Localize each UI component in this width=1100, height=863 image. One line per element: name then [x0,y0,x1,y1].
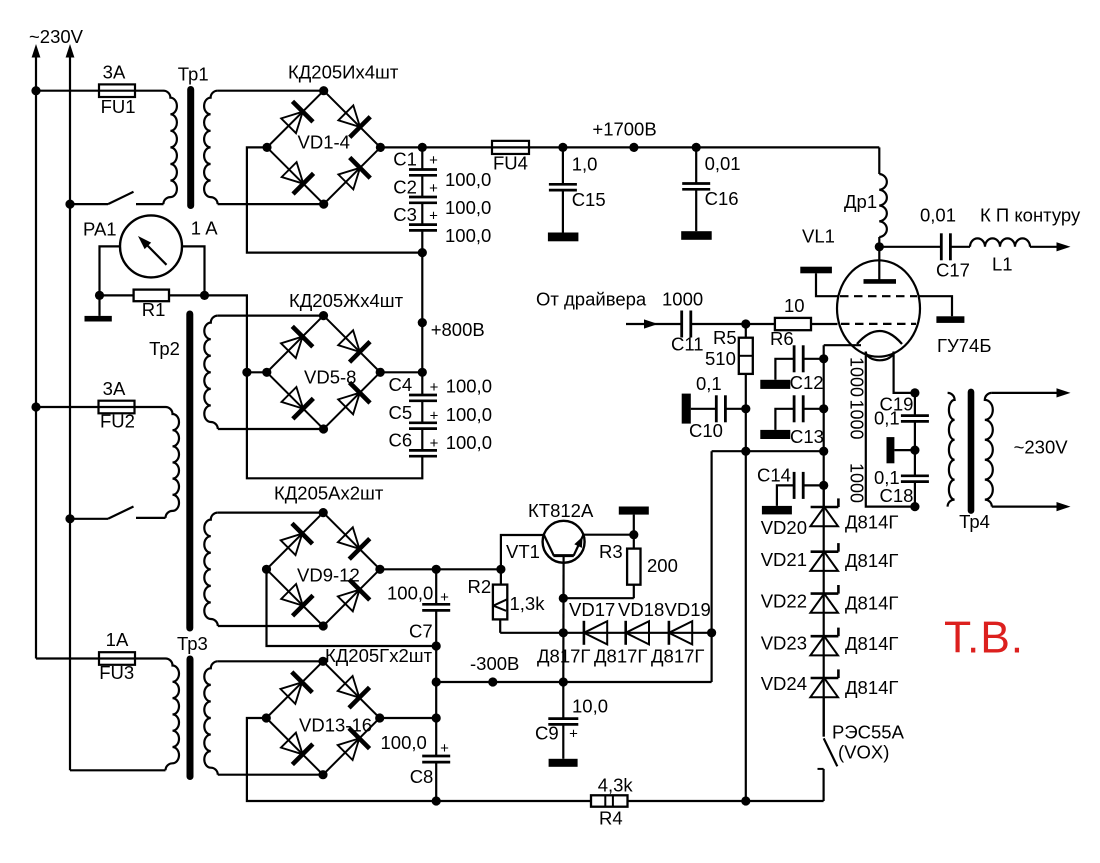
resistor R4 4,3k [591,795,628,806]
svg-text:R1: R1 [142,299,166,320]
svg-text:R4: R4 [599,808,623,829]
svg-text:100,0: 100,0 [445,169,491,190]
svg-text:10: 10 [784,295,805,316]
node anode / C17 [875,242,884,251]
svg-text:VT1: VT1 [506,541,540,562]
svg-text:Тр1: Тр1 [178,64,209,85]
resistor R5 510 [745,324,747,338]
svg-text:Д814Г: Д814Г [845,512,898,533]
transformer Tp4 mains winding [985,393,993,507]
svg-text:Тр4: Тр4 [959,511,990,532]
fuse FU1 3A [99,84,135,97]
svg-text:FU1: FU1 [101,96,136,117]
node R3 top [629,530,638,539]
svg-text:+: + [440,740,449,757]
node VD19 cathode [707,628,716,637]
svg-text:PA1: PA1 [83,219,117,240]
svg-text:C16: C16 [705,188,739,209]
svg-text:C10: C10 [689,420,723,441]
svg-text:3А: 3А [103,378,126,399]
svg-text:L1: L1 [992,254,1013,275]
svg-text:C5: C5 [389,402,413,423]
wire relay contact riser [822,769,824,801]
wire VD9-12 plus to C7 top [380,568,436,570]
diode VD19 Д817Г [668,621,671,645]
svg-text:VD9-12: VD9-12 [297,565,360,586]
svg-text:10,0: 10,0 [572,696,608,717]
svg-text:VD5-8: VD5-8 [304,367,356,388]
node C4 top [418,368,427,377]
transformer Tp2 lower secondary winding [204,513,218,626]
svg-text:C15: C15 [572,189,606,210]
wire R3 bottom to base line [563,597,634,599]
resistor R1 (meter shunt) [100,294,134,296]
svg-text:РЭС55А: РЭС55А [832,722,905,743]
capacitor C19 0,1 [914,393,916,416]
wire C4-C6 stack column [421,372,423,395]
svg-text:VD17: VD17 [569,599,615,620]
svg-text:100,0: 100,0 [446,376,492,397]
wire VT1 base column [562,556,564,682]
diode VD17 Д817Г [583,621,586,645]
node C14 tap [819,481,828,490]
node C19 top [910,388,919,397]
svg-text:VD23: VD23 [761,633,807,654]
node switch SA1 tap [65,200,74,209]
chassis bar above R3 [633,515,635,535]
svg-text:1000: 1000 [847,357,867,397]
wire minus bus to VD5-8 left corner [247,371,267,373]
svg-text:R3: R3 [599,541,623,562]
chassis bar g2 right [918,296,952,316]
node switch SA2 tap [65,514,74,523]
wire VD13-16 plus to C8 [380,717,437,719]
svg-text:3А: 3А [103,62,126,83]
chassis bar g2 left [816,273,839,296]
svg-text:1,0: 1,0 [572,154,598,175]
svg-text:К П контуру: К П контуру [980,205,1081,226]
svg-text:100,0: 100,0 [446,404,492,425]
node C7 bottom [432,641,441,650]
svg-text:Тр3: Тр3 [177,633,208,654]
svg-text:C17: C17 [936,260,970,281]
svg-text:C18: C18 [880,485,914,506]
svg-text:510: 510 [705,348,736,369]
wire +800V to VD5-8 plus [421,323,423,373]
svg-text:R2: R2 [468,576,492,597]
wire mains rail left (L) [35,52,37,659]
transformer Tp3 core [187,659,194,777]
svg-text:0,01: 0,01 [705,153,741,174]
node +1700V label dot [629,143,638,152]
svg-text:C6: C6 [389,430,413,451]
svg-text:VD22: VD22 [761,591,807,612]
svg-text:Д814Г: Д814Г [845,550,898,571]
svg-text:КД205Ах2шт: КД205Ах2шт [274,483,384,504]
capacitor C15 1,0 [562,147,564,184]
svg-text:1А: 1А [106,629,129,650]
wire bias link to cathode chain [712,450,824,452]
capacitor C12 1000 [803,358,824,360]
node minus bus / VD5-8 left [242,368,251,377]
transformer Tp3 secondary winding [204,661,218,774]
capacitor C14 1000 [803,484,824,486]
svg-text:-300В: -300В [470,653,519,674]
wire Tp2 lower secondary to bridge VD9-12 [218,511,323,513]
svg-text:Т.В.: Т.В. [944,614,1024,663]
zener VD20 Д814Г [811,506,839,509]
fuse FU3 1A [99,652,135,665]
bridge rectifier VD1-4 КД205И x4 [262,86,385,209]
svg-text:100,0: 100,0 [387,583,433,604]
svg-text:+: + [429,208,438,225]
wire heater lead right [894,352,915,393]
svg-text:100,0: 100,0 [445,197,491,218]
svg-text:~230V: ~230V [1014,437,1069,458]
zener VD21 Д814Г [811,550,839,553]
wire VD19 riser [710,451,712,682]
resistor R3 200 [633,535,635,549]
transformer Tp3 primary winding [166,659,180,771]
svg-text:R6: R6 [770,328,794,349]
node C1 top [418,143,427,152]
wire Tp3 secondary to bridge VD13-16 [218,660,323,662]
node R2 top / VT1 drive [496,565,505,574]
svg-text:C8: C8 [410,766,434,787]
wire R1 node to minus bus [205,295,423,478]
svg-text:200: 200 [647,555,678,576]
svg-text:Д814Г: Д814Г [845,593,898,614]
node C13 tap [819,404,828,413]
node R1 right [200,291,209,300]
svg-text:1000: 1000 [662,289,703,310]
node C16 tap [692,143,701,152]
node C15 tap [558,143,567,152]
wire Tp3 primary bottom return [70,769,166,771]
node R1 left [95,291,104,300]
wire Tp1 secondary to bridge VD1-4 [218,90,324,92]
svg-text:+: + [429,152,438,169]
wire bottom bias bus [436,800,591,802]
capacitor C3 100,0 [409,223,437,226]
wire VD1-4 plus to HV rail [380,146,492,148]
wire C8 link [435,682,437,718]
svg-text:Д817Г: Д817Г [537,646,590,667]
svg-text:VD13-16: VD13-16 [299,715,372,736]
node C10 / R5 bottom [741,404,750,413]
node C3 bottom [418,248,427,257]
svg-text:1000: 1000 [847,463,867,503]
choke Др1 [878,147,880,174]
wire R5/C10 node down the bias feed [745,409,747,801]
ground at C9 [549,759,578,767]
svg-text:1 A: 1 A [191,218,218,239]
svg-text:Тр2: Тр2 [149,338,180,359]
ground at C16 [681,231,712,240]
svg-text:R5: R5 [713,327,737,348]
svg-text:FU2: FU2 [100,411,135,432]
svg-text:+800В: +800В [431,319,485,340]
wire FU1 feed [36,90,99,92]
svg-text:VD21: VD21 [761,549,807,570]
node C7 top [432,565,441,574]
wire R2 bottom [499,619,501,632]
chassis bar heater midpoint [894,449,915,451]
svg-text:C14: C14 [757,465,791,486]
node bias link tap [819,447,828,456]
fuse FU2 3A [99,401,135,414]
node C9 tap [559,677,568,686]
wire VD1-4 minus loop [247,147,422,252]
capacitor C2 100,0 [409,196,437,199]
wire heater lead left [866,352,915,507]
meter PA1 1A [120,215,182,277]
tube cathode arc [857,331,902,344]
wire C11 to R6 [691,323,746,325]
node grid drive / R5 tap [741,319,750,328]
node FU2 tap [31,402,40,411]
capacitor C8 100,0 [435,718,437,756]
svg-text:КТ812А: КТ812А [528,500,594,521]
node FU1 tap [31,86,40,95]
tube control grid g1 (dashed) [841,323,916,325]
svg-text:VD18: VD18 [618,599,664,620]
node heater midpoint [910,446,919,455]
svg-text:1,3k: 1,3k [510,593,546,614]
svg-text:Др1: Др1 [844,191,877,212]
capacitor C4 100,0 [409,394,437,397]
node C12 tap [819,354,828,363]
svg-text:100,0: 100,0 [446,432,492,453]
node -300V label dot [488,677,497,686]
svg-text:+1700В: +1700В [592,119,656,140]
svg-text:+: + [429,180,438,197]
transformer Tp2 upper secondary winding [204,316,218,429]
svg-text:VD19: VD19 [665,599,711,620]
wire mains rail right (N) [69,52,71,770]
capacitor C13 1000 [803,408,824,410]
ground at C15 [548,233,579,242]
wire VT1 collector to R3 [583,534,634,536]
wire anode top cap [878,247,880,282]
wire PA1 left lead [100,246,121,295]
bridge rectifier VD9-12 КД205А x2 [262,508,385,631]
capacitor C17 0,01 [879,246,941,248]
wire -300V C7 rail to VT1 base divider [436,568,501,570]
transformer Tp2 core [186,314,193,628]
tube base press seal arc [866,352,894,361]
transformer Tp4 heater winding [948,393,955,507]
svg-text:КД205Жх4шт: КД205Жх4шт [289,290,404,311]
bridge rectifier VD13-16 КД205Г x2 [262,657,385,780]
wire zener chain [823,485,825,736]
wire Tp4 mains output bottom [992,506,1058,508]
svg-text:0,1: 0,1 [874,408,900,429]
capacitor C11 1000 [680,311,683,338]
wire C7 bottom to -300V rail [435,646,437,682]
svg-text:C1: C1 [393,149,417,170]
svg-text:100,0: 100,0 [381,732,427,753]
svg-text:C7: C7 [409,621,433,642]
tube anode plate bar [864,279,897,284]
svg-text:C4: C4 [389,374,413,395]
wire VT1 emitter lead [501,535,544,569]
diode VD18 Д817Г [624,621,627,645]
svg-text:ГУ74Б: ГУ74Б [937,335,992,356]
svg-text:(VOX): (VOX) [838,742,889,763]
capacitor C18 0,1 [914,450,916,476]
svg-text:0,1: 0,1 [696,373,722,394]
svg-text:VL1: VL1 [802,226,835,247]
svg-text:100,0: 100,0 [445,225,491,246]
node base line [559,594,568,603]
inductor L1 [970,238,1030,246]
wire FU2 feed [36,406,99,408]
svg-text:VD1-4: VD1-4 [298,132,350,153]
wire -300V rail [436,681,711,683]
svg-text:C13: C13 [790,426,824,447]
node bias crossover [741,447,750,456]
zener VD23 Д814Г [811,635,839,638]
svg-text:Д814Г: Д814Г [845,677,898,698]
svg-text:+: + [569,726,578,743]
node -300V column [432,677,441,686]
svg-text:4,3k: 4,3k [598,775,634,796]
capacitor C10 0,1 [691,408,717,410]
svg-text:~230V: ~230V [29,26,84,47]
transformer Tp1 primary winding [163,91,177,204]
wire cathode to bias chain [824,344,861,346]
svg-text:От драйвера: От драйвера [536,289,647,310]
capacitor C16 0,01 [695,147,697,183]
transformer Tp1 core [187,90,194,206]
wire VD9-12 minus loop to C7 bottom [267,569,437,646]
svg-text:КД205Гх2шт: КД205Гх2шт [325,645,433,666]
svg-text:Д817Г: Д817Г [651,646,704,667]
transformer Tp1 secondary winding [204,91,218,204]
capacitor C5 100,0 [409,421,437,424]
wire C3 bottom to +800V node [421,253,423,323]
transformer Tp2 primary winding [166,407,180,518]
svg-text:FU3: FU3 [99,662,134,683]
capacitor C6 100,0 [409,449,437,452]
svg-text:VD24: VD24 [761,673,807,694]
chassis bar C10 [682,394,691,424]
svg-text:+: + [430,379,439,396]
svg-text:C12: C12 [790,372,824,393]
fuse FU4 [492,141,529,154]
svg-text:+: + [440,589,449,606]
wire VD13-16 minus loop to bottom bus [247,718,436,801]
node +800V [418,318,427,327]
svg-text:C9: C9 [535,723,559,744]
wire +1700V rail [529,146,879,148]
tube screen grid g2 (dashed) [840,295,917,297]
wire Tp2 upper secondary to bridge VD5-8 [218,315,324,317]
wire VD5-8 plus to C4 stack [380,371,422,373]
svg-text:VD20: VD20 [761,517,807,538]
relay contact РЭС55А (VOX) [818,768,824,770]
zener VD24 Д814Г [811,677,839,680]
wire PA1 right lead [182,246,205,295]
svg-text:C3: C3 [393,204,417,225]
svg-text:1000: 1000 [847,400,867,440]
capacitor C7 100,0 [435,569,437,604]
capacitor C1 100,0 [409,168,437,171]
svg-text:+: + [430,435,439,452]
svg-text:КД205Их4шт: КД205Их4шт [288,62,399,83]
svg-text:+: + [430,408,439,425]
resistor R6 10 (grid stopper) [746,323,775,325]
bridge rectifier VD5-8 КД205Ж x4 [262,311,385,434]
wire VD17-VD19 string [563,632,711,634]
node R4 right / relay branch [741,796,750,805]
switch SA2 [70,518,108,520]
svg-text:0,01: 0,01 [920,205,956,226]
wire C1-C3 stack column [421,147,423,169]
svg-text:Д814Г: Д814Г [845,633,898,654]
capacitor C9 10,0 [562,682,564,719]
svg-text:C11: C11 [671,334,704,355]
node C8 bottom [432,796,441,805]
node C18 bottom [910,502,919,511]
wire Tp4 mains output top [992,392,1058,394]
wire FU3 feed [36,657,99,659]
node C8 top [432,713,441,722]
switch SA1 [70,203,108,205]
transformer Tp4 core [968,392,975,511]
zener VD22 Д814Г [811,592,839,595]
svg-text:C2: C2 [393,177,417,198]
svg-text:Д817Г: Д817Г [594,646,647,667]
node VD17 anode line [559,628,568,637]
ground at R1 [98,295,100,316]
svg-text:FU4: FU4 [493,153,528,174]
tube VL1 ГУ74Б envelope [837,260,920,356]
transistor VT1 КТ812А [543,521,585,563]
resistor R2 1,3k [500,569,502,584]
